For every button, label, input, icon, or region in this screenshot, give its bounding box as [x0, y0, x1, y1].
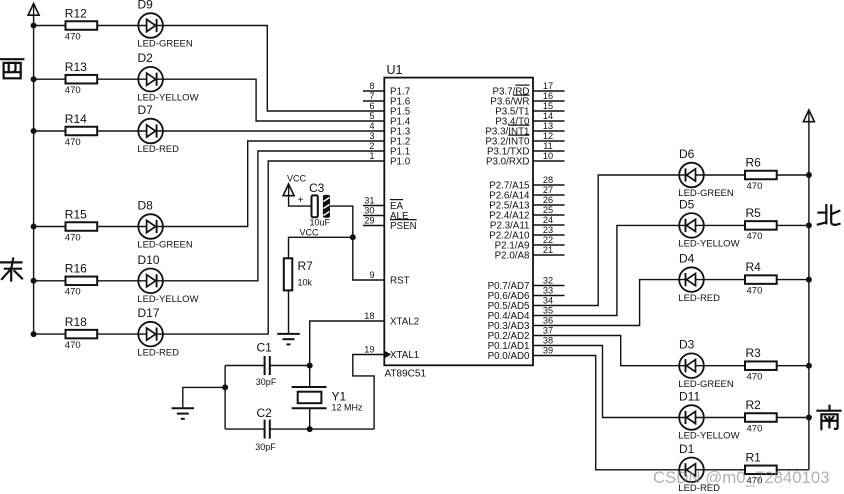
resistor R4 470: [745, 260, 777, 296]
node: west rail junction row R15: [31, 224, 37, 230]
svg-text:22: 22: [543, 235, 553, 245]
wire U1 pin to D3: [533, 336, 679, 366]
svg-text:D9: D9: [138, 0, 154, 12]
svg-text:R1: R1: [746, 450, 762, 464]
wire rail to R15: [34, 226, 66, 228]
LED D6 LED-GREEN: [678, 147, 734, 199]
wire R16 to D10: [97, 280, 138, 282]
svg-text:D4: D4: [679, 252, 695, 266]
svg-text:LED-RED: LED-RED: [137, 347, 179, 358]
wire D17 to U1 pin: [163, 161, 384, 334]
resistor R5 470: [745, 206, 777, 242]
wire rail to R14: [34, 130, 66, 132]
LED D3 LED-GREEN: [678, 338, 734, 390]
svg-text:C2: C2: [257, 406, 273, 420]
microcontroller U1 AT89C51 body: [384, 63, 533, 380]
svg-text:AT89C51: AT89C51: [385, 369, 427, 380]
svg-text:D11: D11: [679, 390, 700, 404]
wire D5 to R5: [704, 224, 745, 226]
svg-text:LED-YELLOW: LED-YELLOW: [137, 92, 198, 103]
node east rail junction R3: [806, 363, 812, 369]
svg-text:10uF: 10uF: [310, 217, 331, 227]
svg-text:P2.0/A8: P2.0/A8: [495, 251, 530, 262]
node: west rail junction row R13: [31, 76, 37, 82]
svg-text:R3: R3: [746, 346, 762, 360]
U1 pin 15 P3.5/T1: [495, 101, 564, 118]
watermark: [653, 468, 830, 487]
U1 pin 34 P0.5/AD5: [488, 295, 554, 312]
svg-text:P1.0: P1.0: [390, 157, 411, 168]
capacitor C2 30pF: [255, 406, 276, 452]
svg-text:RST: RST: [390, 276, 410, 287]
wire D2 to U1 pin: [163, 79, 384, 121]
resistor R18 470: [65, 315, 97, 351]
svg-text:470: 470: [65, 85, 81, 96]
node: west rail junction row R18: [31, 331, 37, 337]
svg-text:15: 15: [543, 101, 553, 111]
U1 pin 4 P1.3: [369, 121, 410, 138]
svg-text:R5: R5: [746, 206, 762, 220]
svg-text:5: 5: [369, 111, 374, 121]
U1 pin 30 ALE: [363, 205, 409, 222]
wire VCC to C3 plus: [289, 195, 312, 206]
U1 pin 36 P0.3/AD3: [488, 315, 554, 332]
svg-text:32: 32: [543, 275, 553, 285]
wire to crystal ground: [183, 387, 225, 408]
svg-text:1: 1: [369, 151, 374, 161]
svg-text:LED-GREEN: LED-GREEN: [137, 39, 193, 50]
U1 pin 25 P2.4/A12: [489, 205, 564, 222]
svg-text:11: 11: [543, 141, 553, 151]
svg-text:2: 2: [369, 141, 374, 151]
U1 pin 1 P1.0: [369, 151, 410, 168]
wire D8 to U1 pin: [163, 141, 384, 227]
wire R6 to east rail: [777, 174, 809, 176]
node: west rail junction row R16: [31, 278, 37, 284]
resistor R12 470: [65, 6, 97, 42]
U1 pin 21 P2.0/A8: [495, 245, 565, 262]
U1 pin 26 P2.5/A13: [489, 195, 564, 212]
svg-text:D8: D8: [138, 199, 154, 213]
power rail north-south VCC arrow: [803, 110, 814, 123]
svg-text:LED-YELLOW: LED-YELLOW: [678, 239, 739, 250]
resistor R7 10k: [284, 258, 313, 290]
resistor R16 470: [65, 262, 97, 298]
svg-text:R7: R7: [298, 259, 314, 273]
svg-text:C1: C1: [257, 341, 273, 355]
U1 pin 13 P3.3/INT1: [485, 121, 564, 138]
U1 pin 37 P0.2/AD2: [488, 325, 554, 342]
node RST junction: [350, 234, 356, 240]
LED D2 LED-YELLOW: [137, 51, 198, 103]
svg-text:470: 470: [747, 231, 763, 242]
svg-text:D5: D5: [679, 197, 695, 211]
U1 pin 18 XTAL2: [364, 311, 419, 328]
wire U1 pin to D1: [533, 356, 679, 470]
U1 pin 39 P0.0/AD0: [488, 345, 554, 362]
svg-text:D17: D17: [138, 306, 160, 320]
crystal Y1 12 MHz: [292, 366, 363, 430]
svg-text:12: 12: [543, 131, 553, 141]
U1 pin 7 P1.6: [363, 91, 411, 108]
U1 pin 32 P0.7/AD7: [488, 275, 565, 292]
wire U1 XTAL1 to crystal bottom: [353, 355, 385, 430]
LED D4 LED-RED: [678, 252, 720, 304]
U1 pin 6 P1.5: [369, 101, 410, 118]
svg-text:27: 27: [543, 185, 553, 195]
svg-text:36: 36: [543, 315, 553, 325]
svg-text:30: 30: [364, 205, 374, 215]
svg-text:R15: R15: [65, 207, 87, 221]
label south: [818, 406, 841, 429]
wire rail to R16: [34, 280, 66, 282]
wire R18 to D17: [97, 333, 138, 335]
wire crystal bottom rail: [225, 428, 374, 430]
svg-text:35: 35: [543, 305, 553, 315]
power rail west VCC arrow: [28, 4, 39, 17]
svg-text:R16: R16: [65, 262, 87, 276]
wire D1 to R1: [704, 469, 745, 471]
svg-text:25: 25: [543, 205, 553, 215]
U1 pin 29 PSEN: [363, 215, 417, 232]
U1 pin 22 P2.1/A9: [495, 235, 565, 252]
wire left side of crystal caps: [224, 366, 226, 430]
resistor R3 470: [745, 346, 777, 382]
ground (crystal): [172, 408, 195, 419]
wire rail to R13: [34, 78, 66, 80]
svg-text:CSDN @m0_72840103: CSDN @m0_72840103: [653, 468, 830, 487]
svg-text:D10: D10: [138, 253, 160, 267]
svg-text:13: 13: [543, 121, 553, 131]
label west: [1, 59, 24, 78]
svg-text:R12: R12: [65, 6, 87, 20]
wire R3 to east rail: [777, 365, 809, 367]
wire D10 to U1 pin: [163, 151, 384, 281]
resistor R15 470: [65, 207, 97, 243]
LED D8 LED-GREEN: [137, 199, 193, 251]
resistor R6 470: [745, 156, 777, 192]
wire D6 to R6: [704, 174, 745, 176]
resistor R14 470: [65, 112, 97, 148]
svg-text:R13: R13: [65, 60, 87, 74]
wire C3 to RST node: [330, 206, 385, 280]
wire U1 pin to D4: [533, 280, 679, 326]
svg-text:XTAL1: XTAL1: [390, 350, 419, 361]
wire R7 to ground: [288, 290, 290, 334]
node crystal top: [307, 363, 313, 369]
resistor R1 470: [745, 450, 777, 486]
U1 pin 33 P0.6/AD6: [488, 285, 565, 302]
svg-text:18: 18: [364, 311, 374, 321]
LED D11 LED-YELLOW: [678, 390, 739, 442]
svg-text:P0.0/AD0: P0.0/AD0: [488, 351, 530, 362]
svg-text:LED-GREEN: LED-GREEN: [137, 240, 193, 251]
wire: east vertical power rail: [808, 122, 810, 470]
svg-text:23: 23: [543, 225, 553, 235]
LED D5 LED-YELLOW: [678, 197, 739, 249]
svg-text:28: 28: [543, 175, 553, 185]
U1 pin 17 P3.7/RD: [492, 81, 564, 98]
svg-text:470: 470: [65, 340, 81, 351]
svg-text:470: 470: [65, 137, 81, 148]
U1 pin 10 P3.0/RXD: [486, 151, 565, 168]
svg-text:470: 470: [65, 31, 81, 42]
svg-text:XTAL2: XTAL2: [390, 317, 419, 328]
svg-text:LED-RED: LED-RED: [678, 293, 720, 304]
label VCC net: [300, 228, 320, 238]
wire D11 to R2: [704, 417, 745, 419]
svg-text:29: 29: [364, 215, 374, 225]
wire U1 XTAL2 to crystal: [310, 321, 385, 366]
capacitor C3 10uF: [309, 181, 331, 227]
U1 pin 16 P3.6/WR: [490, 91, 564, 108]
wire R15 to D8: [97, 226, 138, 228]
svg-text:470: 470: [747, 423, 763, 434]
svg-text:33: 33: [543, 285, 553, 295]
svg-text:470: 470: [747, 285, 763, 296]
wire R4 to east rail: [777, 279, 809, 281]
wire R13 to D2: [97, 78, 138, 80]
wire: west vertical power rail: [33, 15, 35, 334]
capacitor C1 30pF: [256, 341, 277, 388]
svg-text:10k: 10k: [298, 277, 313, 287]
U1 XTAL1 clock marker: [385, 351, 392, 358]
svg-text:14: 14: [543, 111, 553, 121]
svg-text:R2: R2: [746, 398, 762, 412]
U1 pin 28 P2.7/A15: [489, 175, 564, 192]
svg-text:30pF: 30pF: [256, 377, 277, 387]
wire U1 pin to D5: [533, 225, 679, 315]
svg-text:19: 19: [364, 344, 374, 354]
svg-text:U1: U1: [387, 63, 403, 77]
svg-text:31: 31: [364, 195, 374, 205]
wire R12 to D9: [97, 25, 138, 27]
LED D17 LED-RED: [137, 306, 179, 358]
svg-text:D6: D6: [679, 147, 695, 161]
node east rail junction R2: [806, 415, 812, 421]
svg-text:P3.0/RXD: P3.0/RXD: [486, 157, 530, 168]
svg-text:R4: R4: [746, 260, 762, 274]
U1 pin 8 P1.7: [363, 81, 410, 98]
U1 pin 5 P1.4: [369, 111, 410, 128]
U1 pin 12 P3.2/INT0: [485, 131, 564, 148]
wire crystal top rail: [225, 365, 310, 367]
svg-text:21: 21: [543, 245, 553, 255]
ground (reset circuit): [277, 334, 300, 345]
svg-text:470: 470: [65, 232, 81, 243]
svg-text:6: 6: [369, 101, 374, 111]
svg-text:D7: D7: [138, 103, 154, 117]
svg-text:D2: D2: [138, 51, 154, 65]
LED D10 LED-YELLOW: [137, 253, 198, 305]
wire U1 pin to D6: [533, 175, 679, 306]
svg-text:17: 17: [543, 81, 553, 91]
svg-text:Y1: Y1: [332, 390, 347, 404]
U1 pin 31 EA: [363, 195, 404, 212]
U1 pin 9 RST: [369, 270, 409, 287]
svg-text:R14: R14: [65, 112, 87, 126]
wire VCC net to R7: [289, 237, 353, 258]
svg-text:VCC: VCC: [300, 228, 320, 238]
power VCC arrow (reset circuit): [283, 173, 306, 196]
svg-text:30pF: 30pF: [255, 442, 276, 452]
svg-text:R6: R6: [746, 156, 762, 170]
svg-text:D1: D1: [679, 442, 695, 456]
svg-text:12 MHz: 12 MHz: [332, 403, 364, 413]
U1 pin 19 XTAL1: [364, 344, 419, 361]
svg-text:9: 9: [369, 270, 374, 280]
svg-text:R18: R18: [65, 315, 87, 329]
node: west rail junction row R14: [31, 128, 37, 134]
U1 pin 3 P1.2: [369, 131, 410, 148]
svg-text:34: 34: [543, 295, 553, 305]
svg-text:C3: C3: [309, 181, 325, 195]
svg-text:LED-RED: LED-RED: [137, 144, 179, 155]
U1 pin 38 P0.1/AD1: [488, 335, 554, 352]
svg-text:LED-YELLOW: LED-YELLOW: [137, 294, 198, 305]
wire rail to R18: [34, 333, 66, 335]
svg-text:D3: D3: [679, 338, 695, 352]
wire D7 to U1 pin P1.5: [163, 130, 384, 132]
wire U1 pin to D11: [533, 346, 679, 418]
wire R5 to east rail: [777, 224, 809, 226]
wire R2 to east rail: [777, 417, 809, 419]
label east: [1, 259, 22, 281]
svg-text:470: 470: [747, 372, 763, 383]
node east rail junction R5: [806, 222, 812, 228]
svg-text:470: 470: [65, 287, 81, 298]
svg-text:24: 24: [543, 215, 553, 225]
node east rail junction R6: [806, 172, 812, 178]
svg-text:38: 38: [543, 335, 553, 345]
wire R14 to D7: [97, 130, 138, 132]
LED D7 LED-RED: [137, 103, 179, 155]
node east rail junction R4: [806, 277, 812, 283]
label north: [818, 205, 840, 225]
svg-text:26: 26: [543, 195, 553, 205]
U1 pin 23 P2.2/A10: [489, 225, 564, 242]
svg-text:470: 470: [747, 181, 763, 192]
svg-text:16: 16: [543, 91, 553, 101]
U1 pin 11 P3.1/TXD: [487, 141, 564, 158]
svg-text:+: +: [298, 195, 304, 206]
resistor R13 470: [65, 60, 97, 96]
wire D4 to R4: [704, 279, 745, 281]
resistor R2 470: [745, 398, 777, 434]
svg-text:3: 3: [369, 131, 374, 141]
wire R1 to east rail: [777, 469, 809, 471]
svg-text:LED-GREEN: LED-GREEN: [678, 379, 734, 390]
U1 pin 24 P2.3/A11: [490, 215, 565, 232]
svg-text:VCC: VCC: [287, 173, 307, 183]
U1 pin 14 P3.4/T0: [495, 111, 564, 128]
node crystal bottom: [307, 426, 313, 432]
node ground tap: [222, 384, 228, 390]
svg-text:PSEN: PSEN: [390, 221, 417, 232]
LED D9 LED-GREEN: [137, 0, 193, 50]
wire D3 to R3: [704, 365, 745, 367]
wire D9 to U1 pin: [163, 26, 384, 112]
U1 pin 27 P2.6/A14: [489, 185, 564, 202]
svg-text:10: 10: [543, 151, 553, 161]
wire rail to R12: [34, 25, 66, 27]
svg-text:7: 7: [369, 91, 374, 101]
U1 pin 35 P0.4/AD4: [488, 305, 554, 322]
svg-text:39: 39: [543, 345, 553, 355]
LED D1 LED-RED: [678, 442, 720, 494]
U1 pin 2 P1.1: [369, 141, 410, 158]
node: west rail junction row R12: [31, 23, 37, 29]
svg-text:4: 4: [369, 121, 374, 131]
svg-text:8: 8: [369, 81, 374, 91]
svg-text:37: 37: [543, 325, 553, 335]
svg-text:LED-YELLOW: LED-YELLOW: [678, 431, 739, 442]
